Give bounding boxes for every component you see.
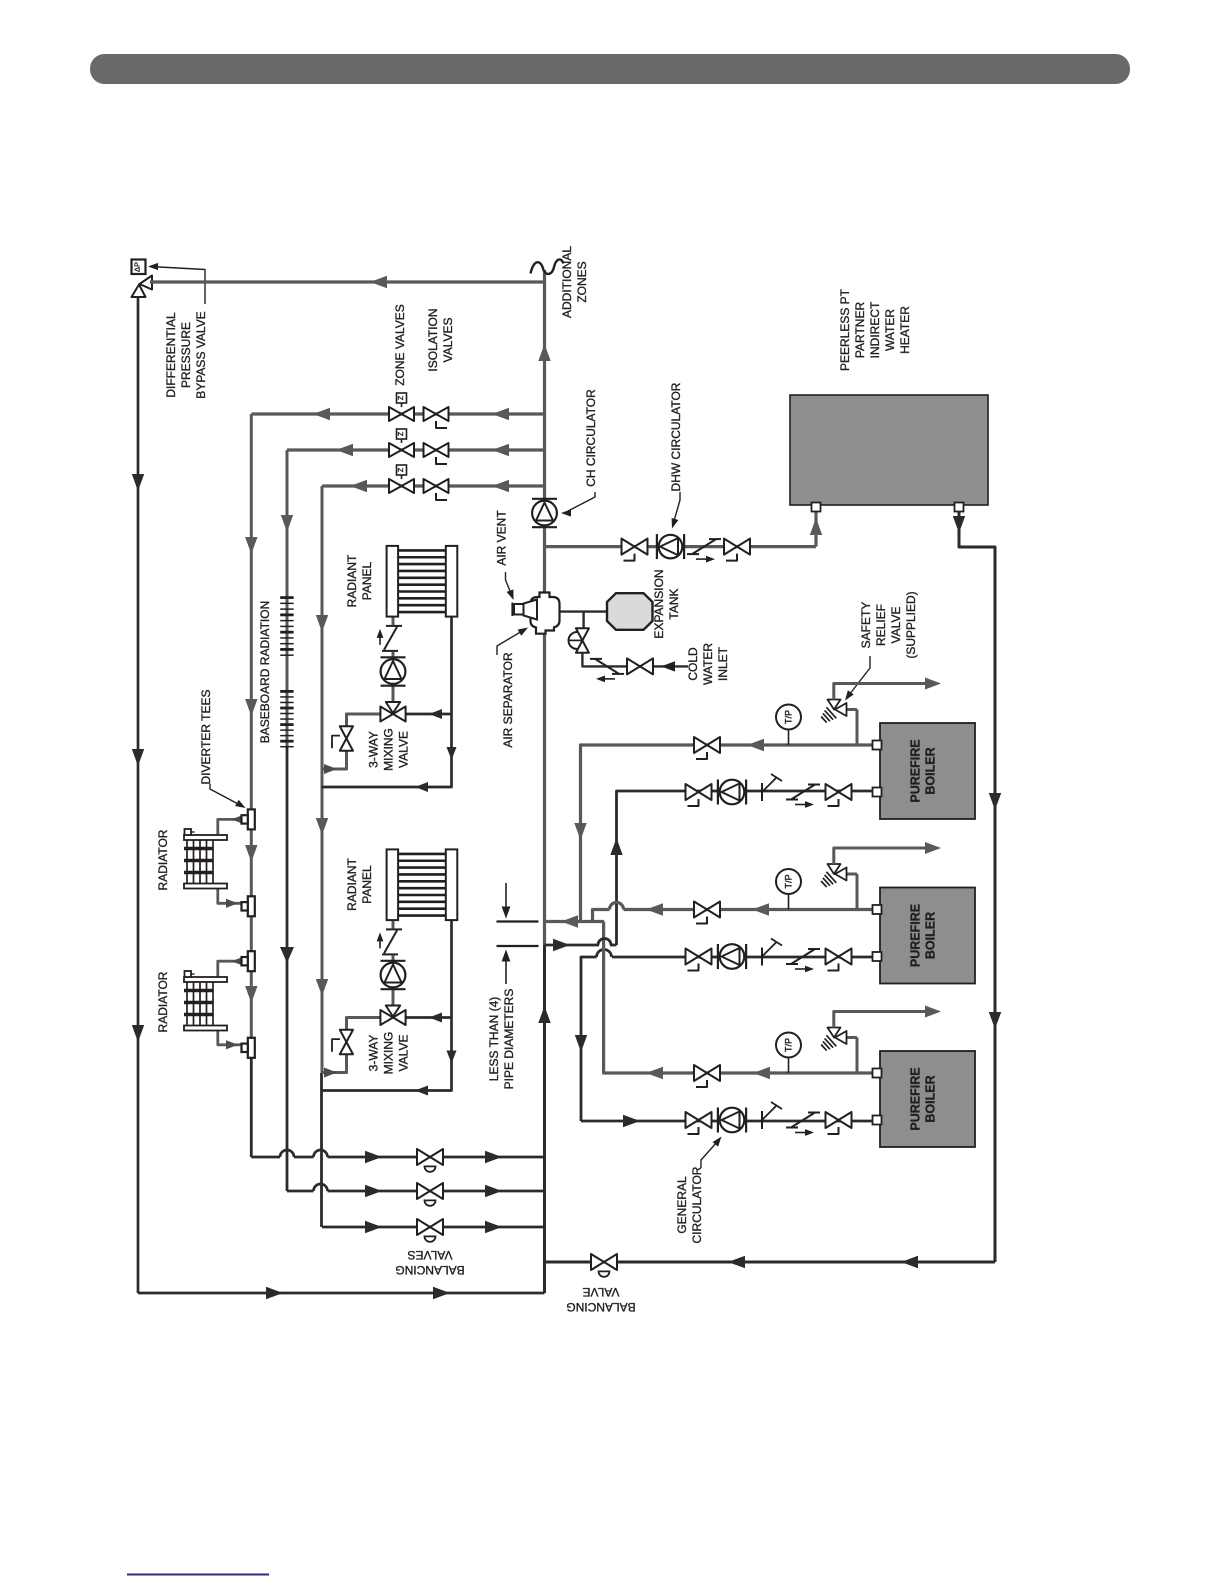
svg-text:BOILER: BOILER <box>924 1075 938 1122</box>
wire B1 return <box>617 791 876 945</box>
differential pressure bypass valve dP box <box>132 260 146 275</box>
arrow B1 supply <box>747 739 764 751</box>
boiler B3 circulator <box>720 1108 745 1133</box>
dimension marks less-than-4-diameters <box>497 920 539 922</box>
balancing valve 3 <box>417 1219 430 1235</box>
purefire boiler B2 box <box>880 888 975 984</box>
svg-text:INDIRECT: INDIRECT <box>868 301 882 358</box>
radiator 2 return branch <box>218 1031 242 1045</box>
boiler B2 return valve B <box>826 949 839 965</box>
arrows B3 supply <box>753 1067 770 1079</box>
boiler B1 return valve A <box>686 784 699 800</box>
boiler B1 return valve B <box>826 784 839 800</box>
svg-text:VALVES: VALVES <box>441 318 455 363</box>
air vent leader <box>506 572 513 596</box>
radiant panel 2 <box>387 849 399 920</box>
svg-text:TANK: TANK <box>667 588 681 619</box>
svg-text:VALVE: VALVE <box>397 1035 411 1072</box>
safety relief leader <box>849 656 870 695</box>
wire feeder 2 (baseboard) <box>286 450 289 746</box>
boiler B2 supply valve <box>694 902 707 918</box>
svg-text:ZONE VALVES: ZONE VALVES <box>393 304 407 386</box>
arrow heater return down <box>953 516 965 533</box>
wire left main return <box>137 296 140 1293</box>
boiler B1 purge valve <box>761 783 763 801</box>
wire balancing line 2 <box>287 1190 314 1193</box>
wire cold water line <box>589 665 688 667</box>
diverter tee 2 <box>248 896 255 916</box>
cold water check valve <box>595 659 619 674</box>
CH circulator pump <box>532 501 557 526</box>
air separator body <box>531 593 560 634</box>
arrows zone branch 3 <box>492 480 509 492</box>
3-way mixing valve 1 <box>380 707 393 722</box>
cold water valve <box>627 658 640 674</box>
radiant zone 1 return path <box>322 617 452 787</box>
dP leader <box>150 267 205 305</box>
arrows B2 supply <box>752 903 769 915</box>
purefire boiler B3 box <box>880 1051 975 1147</box>
svg-text:PRESSURE: PRESSURE <box>179 322 193 388</box>
arrows feeder 3 <box>316 615 328 632</box>
arrow riser up lower <box>538 1006 550 1023</box>
svg-text:3-WAY: 3-WAY <box>367 1035 381 1072</box>
DHW check valve <box>692 539 716 554</box>
isolation valve row 1 <box>424 407 437 421</box>
svg-text:BASEBOARD RADIATION: BASEBOARD RADIATION <box>258 601 272 743</box>
wire B3 return <box>581 1120 875 1123</box>
svg-text:PANEL: PANEL <box>360 561 374 600</box>
boiler B3 return valve B <box>826 1112 839 1128</box>
svg-text:VALVE: VALVE <box>889 607 903 644</box>
bypass valve (angle) <box>140 276 153 290</box>
wire heater return <box>959 511 995 1262</box>
wire DHW to heater <box>814 511 817 547</box>
general circulator leader <box>701 1141 718 1168</box>
balancing valve 1 <box>417 1149 430 1165</box>
svg-text:DIFFERENTIAL: DIFFERENTIAL <box>164 312 178 398</box>
svg-text:WATER: WATER <box>883 309 897 351</box>
arrows feeder 2 <box>281 515 293 532</box>
svg-text:3-WAY: 3-WAY <box>367 731 381 768</box>
svg-text:COLD: COLD <box>686 647 700 681</box>
svg-text:Z: Z <box>398 467 405 472</box>
svg-text:T/P: T/P <box>784 710 794 724</box>
arrows balancing line 1 <box>365 1151 382 1163</box>
svg-text:BALANCING: BALANCING <box>395 1263 464 1277</box>
arrow cold water inlet <box>661 661 675 671</box>
arrows zone branch 2 <box>492 444 509 456</box>
svg-text:GENERAL: GENERAL <box>675 1176 689 1234</box>
svg-text:CIRCULATOR: CIRCULATOR <box>690 1166 704 1243</box>
svg-text:PEERLESS PT: PEERLESS PT <box>838 288 852 371</box>
wire balancing line 3 <box>322 1226 545 1229</box>
svg-text:BYPASS VALVE: BYPASS VALVE <box>194 311 208 398</box>
svg-text:RADIANT: RADIANT <box>345 857 359 910</box>
wire tee 2 (riser to boilers) <box>545 944 600 947</box>
svg-text:MIXING: MIXING <box>382 728 396 771</box>
balancing valve 2 <box>417 1183 430 1199</box>
indirect water heater box <box>790 395 988 505</box>
boiler B3 check valve <box>791 1113 815 1128</box>
svg-text:SAFETY: SAFETY <box>859 602 873 649</box>
zone valve Z3 <box>389 479 402 493</box>
arrows feeder 1 <box>245 537 257 554</box>
svg-text:MIXING: MIXING <box>382 1032 396 1075</box>
DHW circulator pump <box>659 535 683 559</box>
diverter tee 3 <box>248 951 255 971</box>
DHW circulator leader <box>674 492 680 521</box>
zone valve Z1 <box>389 407 402 421</box>
diverter tees leader <box>210 784 240 805</box>
radiator 1 <box>184 835 227 840</box>
svg-text:ADDITIONAL: ADDITIONAL <box>560 246 574 318</box>
header bar <box>90 54 1130 84</box>
heater port left <box>812 503 821 512</box>
baseboard radiation ticks <box>280 596 293 599</box>
svg-text:LESS THAN (4): LESS THAN (4) <box>487 997 501 1081</box>
purefire boiler B1 box <box>880 723 975 819</box>
wire zone branch 3 <box>322 484 545 487</box>
wire zone branch 2 <box>287 448 545 451</box>
pressure reducing fill valve <box>576 628 589 640</box>
arrows zone branch 1 <box>492 408 509 420</box>
svg-text:PARTNER: PARTNER <box>853 302 867 359</box>
radiant zone 1 check valve <box>384 627 397 650</box>
boiler B1 supply valve <box>694 737 707 753</box>
svg-text:Z: Z <box>398 395 405 400</box>
wire tee 1 (supply into riser) <box>545 920 605 923</box>
CH circulator leader <box>568 492 595 511</box>
wire B2 return <box>612 956 875 959</box>
arrows balancing line 2 <box>365 1185 382 1197</box>
radiant zone 2 check valve <box>384 930 397 953</box>
arrow B1 return up <box>610 838 622 855</box>
arrow B1 manifold down <box>574 823 586 840</box>
wire boiler return main <box>545 1261 996 1264</box>
radiant zone 2 return path <box>322 920 452 1090</box>
radiant zone 2 supply path <box>322 1055 347 1073</box>
wire top supply line <box>150 280 545 283</box>
svg-text:BOILER: BOILER <box>924 747 938 794</box>
boiler B3 supply valve <box>694 1065 707 1081</box>
boiler B2 check valve <box>791 949 815 964</box>
svg-text:HEATER: HEATER <box>898 306 912 354</box>
svg-text:RADIATOR: RADIATOR <box>156 829 170 890</box>
diverter tee 4 <box>248 1038 255 1058</box>
wire DHW branch <box>545 545 817 548</box>
wire CH riser upper <box>543 270 546 945</box>
arrow into heater <box>810 518 822 535</box>
boiler B3 relief valve <box>856 1038 859 1074</box>
boiler B1 circulator <box>720 780 745 805</box>
svg-text:AIR SEPARATOR: AIR SEPARATOR <box>501 652 515 748</box>
svg-text:T/P: T/P <box>784 874 794 888</box>
arrows boiler return main <box>728 1256 745 1268</box>
boiler B1 relief valve <box>856 710 859 746</box>
air vent symbol <box>514 604 524 615</box>
wire feeder 3 (radiant) <box>321 486 324 1073</box>
svg-text:Z: Z <box>398 431 405 436</box>
svg-text:(SUPPLIED): (SUPPLIED) <box>904 591 918 658</box>
boiler B2 T/P sensor <box>776 869 801 894</box>
svg-text:DIVERTER TEES: DIVERTER TEES <box>199 690 213 785</box>
svg-text:VALVE: VALVE <box>583 1285 620 1299</box>
wire balancing line 1 <box>251 1156 280 1159</box>
boiler B1 return port <box>873 788 882 797</box>
break squiggle additional zones <box>531 259 564 274</box>
arrows balancing line 3 <box>365 1221 382 1233</box>
bypass valve 1 <box>340 726 353 738</box>
footer rule <box>127 1574 269 1576</box>
DHW isolation valve 1 <box>622 539 635 555</box>
boiler B3 T/P sensor <box>776 1033 801 1058</box>
boiler B1 check valve <box>791 785 815 800</box>
svg-text:ZONES: ZONES <box>575 261 589 302</box>
svg-text:PIPE DIAMETERS: PIPE DIAMETERS <box>502 989 516 1090</box>
air separator leader <box>497 631 523 656</box>
boiler B1 supply port <box>873 741 882 750</box>
zone valve Z2 <box>389 443 402 457</box>
3-way mixing valve 2 <box>380 1010 393 1025</box>
radiant zone 1 supply path <box>322 751 347 769</box>
arrow top line <box>370 276 387 288</box>
wire separator to tank <box>560 610 607 612</box>
wire CH riser lower <box>543 945 546 1293</box>
svg-text:T/P: T/P <box>784 1038 794 1052</box>
arrow riser up top <box>538 344 550 361</box>
wire fill branch down <box>582 612 584 629</box>
svg-text:RELIEF: RELIEF <box>874 604 888 646</box>
air separator left cone <box>524 600 538 620</box>
boiler B2 relief valve <box>856 874 859 910</box>
svg-text:CH CIRCULATOR: CH CIRCULATOR <box>584 389 598 487</box>
boiler B2 purge valve <box>761 948 763 966</box>
wire B2 supply <box>624 908 876 911</box>
svg-text:BALANCING: BALANCING <box>566 1300 635 1314</box>
boiler B3 supply port <box>873 1069 882 1078</box>
isolation valve row 3 <box>424 479 437 493</box>
radiator 1 return branch <box>218 889 242 904</box>
svg-text:PANEL: PANEL <box>360 865 374 904</box>
radiant zone 2 circulator <box>381 963 406 988</box>
heater port right <box>955 503 964 512</box>
svg-text:VALVES: VALVES <box>408 1248 453 1262</box>
svg-text:PUREFIRE: PUREFIRE <box>909 904 923 967</box>
expansion tank <box>607 593 653 630</box>
boiler B3 return valve A <box>686 1112 699 1128</box>
wire fill branch elbow <box>582 653 589 667</box>
boiler B2 circulator <box>720 944 745 969</box>
wire B3 supply <box>604 922 875 1074</box>
radiator 2 supply branch <box>218 961 242 977</box>
boiler B3 return port <box>873 1116 882 1125</box>
svg-text:ISOLATION: ISOLATION <box>426 308 440 371</box>
bypass valve 2 <box>340 1030 353 1042</box>
arrow tee 2 <box>553 939 570 951</box>
boiler B2 return port <box>873 952 882 961</box>
arrows left main <box>132 474 144 491</box>
svg-text:BOILER: BOILER <box>924 912 938 959</box>
boiler B1 T/P sensor <box>776 705 801 730</box>
arrows right drop <box>989 793 1001 810</box>
radiant zone 1 circulator <box>381 659 406 684</box>
svg-text:VALVE: VALVE <box>397 731 411 768</box>
wire bottom return line <box>138 1292 545 1295</box>
svg-text:RADIANT: RADIANT <box>345 554 359 607</box>
wire zone branch 1 <box>251 412 544 415</box>
svg-text:EXPANSION: EXPANSION <box>652 569 666 638</box>
arrow B2 manifold down <box>575 1035 587 1052</box>
diverter tee 1 <box>248 809 255 829</box>
radiator 2 <box>184 977 227 982</box>
svg-text:INLET: INLET <box>716 646 730 681</box>
isolation valve row 2 <box>424 443 437 457</box>
DHW isolation valve 2 <box>724 539 737 555</box>
svg-text:PUREFIRE: PUREFIRE <box>909 1067 923 1130</box>
arrow tee 1 <box>561 915 578 927</box>
svg-text:WATER: WATER <box>701 643 715 685</box>
main balancing valve <box>591 1254 604 1270</box>
svg-text:ΔP: ΔP <box>133 262 142 272</box>
svg-text:DHW CIRCULATOR: DHW CIRCULATOR <box>669 382 683 491</box>
svg-text:RADIATOR: RADIATOR <box>156 971 170 1032</box>
svg-text:AIR VENT: AIR VENT <box>495 510 509 566</box>
svg-text:PUREFIRE: PUREFIRE <box>909 739 923 802</box>
wire B1 supply <box>581 745 876 922</box>
arrows bottom line <box>266 1287 283 1299</box>
wire feeder 1 (radiators) <box>250 414 253 1058</box>
radiator 1 supply branch <box>218 819 242 835</box>
boiler B2 return valve A <box>686 949 699 965</box>
radiant panel 1 <box>387 546 399 617</box>
boiler B2 supply port <box>873 905 882 914</box>
arrow B3 return <box>623 1115 640 1127</box>
boiler B3 purge valve <box>761 1111 763 1129</box>
